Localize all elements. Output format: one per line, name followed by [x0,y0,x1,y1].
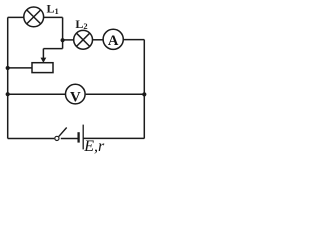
svg-text:E,r: E,r [83,138,105,154]
svg-text:A: A [108,33,119,49]
svg-text:L1: L1 [47,2,59,16]
svg-text:L2: L2 [75,17,87,31]
svg-text:V: V [70,89,81,105]
